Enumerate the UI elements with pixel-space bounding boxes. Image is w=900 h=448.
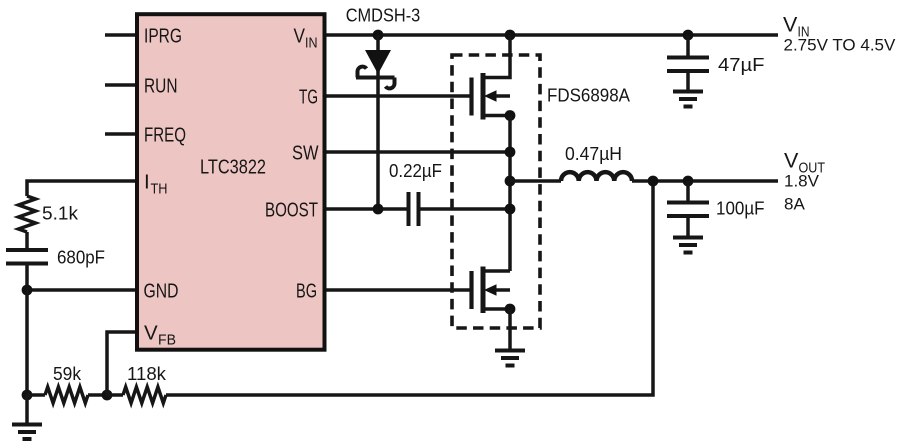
wire feedback run to VOUT (166, 181, 653, 395)
transistor Q1 top N-MOSFET gate bar (469, 78, 473, 116)
svg-text:5.1k: 5.1k (42, 203, 79, 224)
svg-text:TH: TH (151, 182, 168, 198)
svg-text:IN: IN (305, 36, 318, 52)
wire RUN pin stub (105, 83, 135, 87)
wire TG pin to top FET gate (327, 94, 470, 98)
svg-text:CMDSH-3: CMDSH-3 (346, 5, 421, 26)
ground symbol below 100uF (673, 238, 703, 253)
resistor 118k (123, 387, 166, 403)
inductor L 0.47uH (561, 172, 632, 181)
node junction top FET drain on VIN rail (505, 30, 516, 41)
transistor Q1 body diode arrow (484, 90, 497, 102)
ground symbol bottom-left (12, 425, 42, 440)
node junction Q1 source (505, 110, 516, 121)
transistor Q2 source stub (483, 307, 510, 311)
resistor 5.1k (19, 196, 36, 232)
wire FREQ pin stub (105, 132, 135, 136)
node junction boost cap (505, 204, 516, 215)
wire VFB pin to FB node (107, 332, 135, 395)
svg-text:680pF: 680pF (57, 247, 105, 268)
node junction diode anode on VIN rail (373, 30, 384, 41)
wire to ground (25, 395, 29, 424)
wire diode branch vertical (376, 35, 380, 209)
capacitor 100uF (667, 203, 709, 217)
wire BOOST pin to 0.22uF (327, 207, 407, 211)
wire switch node vertical (508, 116, 512, 272)
svg-text:GND: GND (144, 280, 179, 303)
wire 0.22uF to switch node (421, 207, 511, 211)
wire 100uF to ground (686, 218, 690, 237)
node junction Q2 source (505, 304, 516, 315)
transistor Q1 channel bar (481, 73, 486, 120)
svg-text:59k: 59k (53, 363, 82, 384)
diode CMDSH-3 schottky cathode bar (356, 67, 395, 89)
wire IPRG pin stub (105, 33, 135, 37)
transistor Q2 body stub (494, 288, 510, 292)
svg-text:RUN: RUN (144, 75, 178, 98)
svg-text:LTC3822: LTC3822 (200, 156, 266, 179)
svg-text:V: V (784, 149, 799, 173)
node junction divider bottom (22, 390, 33, 401)
transistor Q1 drain stub (483, 35, 510, 78)
svg-text:FDS6898A: FDS6898A (547, 85, 631, 106)
node junction SW (505, 147, 516, 158)
wire SW pin to switch node (327, 150, 511, 154)
node junction 100uF (683, 176, 694, 187)
ground symbol below Q2 (495, 351, 525, 366)
svg-text:IPRG: IPRG (144, 25, 182, 48)
node junction ITH/GND branch (22, 285, 33, 296)
svg-text:100µF: 100µF (716, 198, 765, 219)
svg-text:2.75V TO 4.5V: 2.75V TO 4.5V (784, 35, 896, 54)
svg-text:TG: TG (299, 86, 318, 109)
svg-text:0.47µH: 0.47µH (565, 143, 622, 164)
capacitor C 0.22uF plates (409, 192, 419, 226)
node junction diode cathode BOOST (373, 204, 384, 215)
wire 47uF to ground (686, 73, 690, 91)
wire 5.1k to 680pF (25, 232, 29, 248)
node junction inductor branch (505, 176, 516, 187)
wire GND branch down to divider (25, 290, 29, 395)
wire Q2 source to ground (508, 309, 512, 350)
diode CMDSH-3 anode triangle (365, 50, 391, 74)
svg-text:FB: FB (158, 333, 176, 349)
node FB junction (102, 390, 113, 401)
svg-text:V: V (294, 25, 306, 48)
capacitor 47uF (667, 58, 709, 72)
transistor Q2 drain stub (483, 269, 510, 273)
svg-text:FREQ: FREQ (144, 124, 186, 147)
ground symbol below 47uF (673, 92, 703, 107)
wire FB node to 118k (107, 393, 123, 397)
node junction 47uF on VIN rail (683, 30, 694, 41)
transistor Q1 body stub (494, 94, 510, 98)
node junction feedback tap (648, 176, 659, 187)
wire dot to 59k (27, 393, 45, 397)
wire 59k to FB node (88, 393, 107, 397)
wire BG pin to bottom FET gate (327, 288, 470, 292)
svg-text:1.8V: 1.8V (784, 171, 820, 190)
dashed package outline FDS6898A (452, 55, 540, 328)
svg-text:8A: 8A (784, 194, 805, 213)
svg-text:BOOST: BOOST (265, 199, 318, 222)
wire VOUT rail to 100uF (686, 181, 690, 201)
svg-text:118k: 118k (127, 363, 167, 384)
svg-text:V: V (144, 322, 158, 345)
wire VIN rail to 47uF (686, 35, 690, 56)
wire 680pF to GND node (25, 266, 29, 291)
wire switch node to inductor (510, 179, 561, 183)
transistor Q2 bottom N-MOSFET gate bar (469, 271, 473, 309)
wire VOUT rail (632, 179, 778, 183)
wire ITH pin to RC network (27, 181, 135, 196)
transistor Q2 body diode arrow (484, 284, 497, 296)
transistor Q2 channel bar (481, 267, 486, 314)
resistor 59k (45, 387, 88, 403)
svg-text:0.22µF: 0.22µF (389, 160, 442, 181)
wire VIN rail (327, 33, 779, 37)
capacitor 680pF (6, 250, 48, 264)
svg-text:SW: SW (292, 142, 319, 165)
op-amp U1 LTC3822 controller IC body (137, 14, 325, 350)
svg-text:I: I (144, 171, 150, 194)
transistor Q1 source stub (483, 114, 510, 118)
wire GND pin (27, 288, 135, 292)
svg-text:47µF: 47µF (718, 54, 765, 75)
svg-text:BG: BG (296, 280, 317, 303)
svg-text:V: V (783, 13, 798, 37)
